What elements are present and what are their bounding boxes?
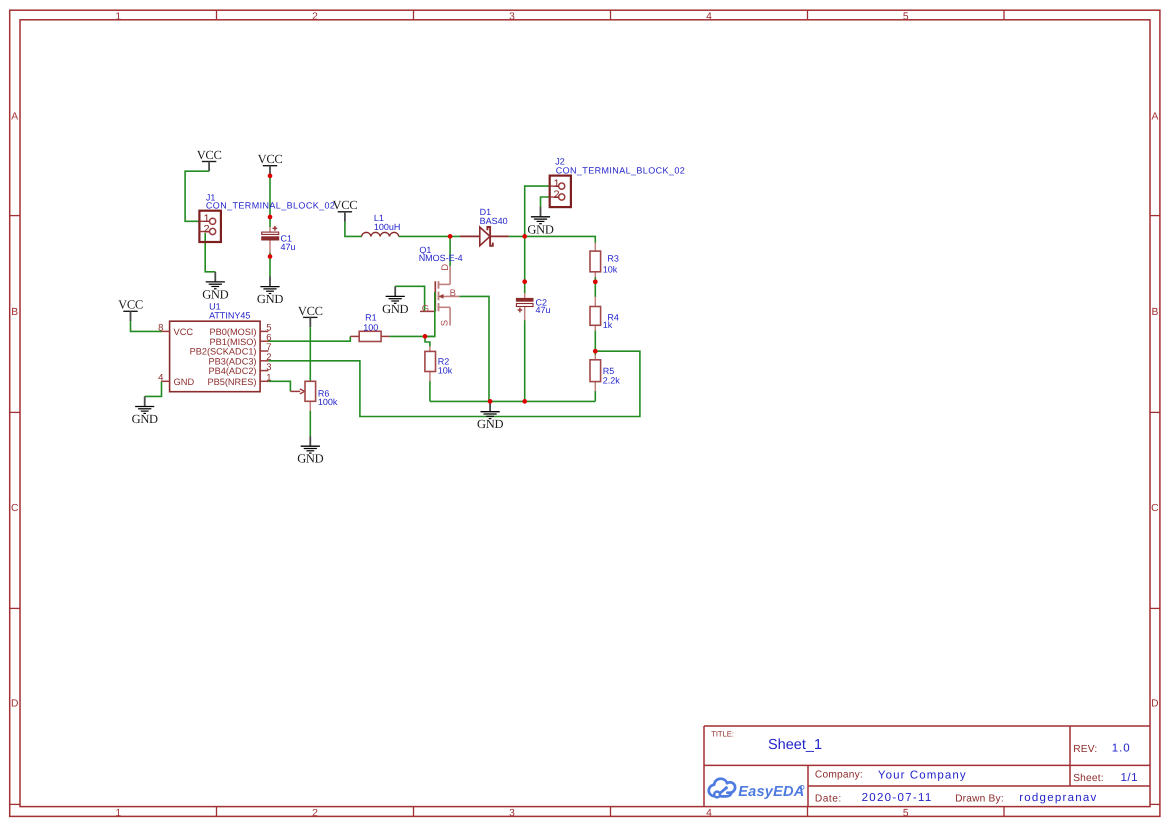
svg-text:D: D — [1151, 699, 1158, 710]
svg-text:B: B — [11, 307, 18, 318]
svg-text:2.2k: 2.2k — [603, 376, 621, 386]
J2 pin 2 — [550, 189, 565, 201]
svg-text:VCC: VCC — [118, 298, 143, 312]
svg-text:A: A — [1151, 111, 1158, 122]
EasyEDA logo registered mark — [800, 785, 804, 789]
resistor R2 body — [425, 351, 436, 371]
svg-text:GND: GND — [174, 377, 195, 387]
svg-text:1: 1 — [115, 808, 121, 819]
U1 pin 7 PB2(SCKADC1) — [190, 342, 272, 356]
wire R6 bottom to GND — [309, 411, 311, 436]
svg-text:1.0: 1.0 — [1112, 743, 1131, 755]
ground symbol GND (main rail) — [477, 402, 503, 432]
wire VCC4 to U1 pin8 — [131, 321, 162, 331]
svg-text:VCC: VCC — [332, 198, 357, 212]
power flag VCC (V3) — [332, 198, 357, 221]
svg-text:100k: 100k — [318, 397, 338, 407]
wire R2 bottom to GND rail — [429, 381, 431, 402]
power flag VCC (V4) — [118, 298, 143, 321]
U1 pin 4 GND — [158, 373, 194, 387]
U1 pin 3 PB4(ADC2) — [209, 362, 272, 376]
junction rail C2 — [522, 399, 527, 404]
svg-text:4: 4 — [706, 12, 712, 23]
svg-text:GND: GND — [132, 412, 158, 426]
svg-text:2020-07-11: 2020-07-11 — [862, 792, 933, 804]
ground symbol GND (under C1) — [257, 277, 283, 307]
svg-text:S: S — [440, 320, 451, 326]
svg-text:PB5(NRES): PB5(NRES) — [207, 377, 256, 387]
resistor R6 body — [305, 381, 316, 401]
U1 pin 2 PB3(ADC3) — [209, 352, 272, 366]
wire J1 pin2 to GND — [205, 233, 215, 272]
svg-text:10k: 10k — [603, 265, 618, 275]
svg-text:GND: GND — [257, 292, 283, 306]
svg-text:VCC: VCC — [298, 304, 323, 318]
wire R4 to R5 — [594, 331, 596, 356]
svg-text:Your Company: Your Company — [878, 770, 967, 782]
svg-text:EasyEDA: EasyEDA — [738, 784, 804, 800]
svg-text:2: 2 — [553, 189, 559, 201]
wire diode cathode to output node — [509, 236, 595, 242]
wire J2 pin2 to GND — [541, 197, 550, 207]
J1 pin 1 — [199, 213, 215, 225]
wire U1 pin6 to R1 — [268, 336, 350, 341]
junction C1 top — [268, 215, 273, 220]
svg-text:GND: GND — [382, 302, 408, 316]
wire R1 to gate node — [389, 335, 435, 337]
svg-text:Company:: Company: — [815, 770, 863, 781]
wire R3 to R4 — [594, 277, 596, 297]
ruler row letters left — [11, 111, 19, 709]
svg-text:VCC: VCC — [174, 327, 194, 337]
svg-text:2: 2 — [312, 808, 318, 819]
wire L1 to node D — [399, 235, 461, 237]
wire VCC5 to R6 top — [309, 327, 311, 381]
svg-text:5: 5 — [903, 808, 909, 819]
svg-text:R5: R5 — [603, 366, 615, 376]
junction C1 bottom — [268, 254, 273, 259]
diode D1 (BAS40 schottky) — [460, 227, 509, 246]
svg-text:47u: 47u — [536, 305, 551, 315]
U1 pin 5 PB0(MOSI) — [210, 323, 272, 337]
capacitor C1 — [262, 226, 279, 253]
U1 pin 6 PB1(MISO) — [210, 332, 272, 346]
svg-text:GND: GND — [527, 222, 553, 236]
wire GND rail — [430, 400, 595, 402]
junction VCC2 flag — [268, 174, 273, 179]
svg-text:2: 2 — [312, 12, 318, 23]
svg-text:3: 3 — [509, 12, 515, 23]
svg-text:PB4(ADC2): PB4(ADC2) — [209, 366, 257, 376]
wire feedback node to PB3 wire — [268, 351, 640, 416]
wire output node up to J2 pin1 — [525, 186, 550, 236]
U1 pin 1 PB5(NRES) — [207, 373, 271, 387]
svg-text:Sheet_1: Sheet_1 — [768, 737, 822, 753]
svg-text:3: 3 — [266, 362, 271, 373]
ruler column numbers top — [115, 12, 909, 23]
svg-text:1/1: 1/1 — [1121, 772, 1139, 784]
junction C2 upper — [522, 279, 527, 284]
svg-text:2: 2 — [203, 224, 209, 236]
svg-text:VCC: VCC — [258, 152, 283, 166]
wire VCC1 to J1 pin1 — [185, 171, 209, 221]
svg-text:PB0(MOSI): PB0(MOSI) — [210, 327, 257, 337]
svg-text:Sheet:: Sheet: — [1073, 773, 1104, 784]
ground symbol GND (under J1) — [202, 272, 228, 302]
svg-text:G: G — [422, 304, 429, 315]
wire C2 bottom to GND rail — [524, 320, 526, 401]
ground symbol GND (under J2) — [527, 207, 553, 237]
wire C2 branch upper — [524, 236, 526, 293]
wire GND to gate pin — [395, 286, 424, 311]
wire U1 pin4 to GND — [145, 381, 162, 396]
U1 pin 8 VCC — [158, 323, 193, 337]
resistor R2 body — [429, 346, 431, 381]
resistor R3 body — [590, 251, 601, 272]
inductor L1 — [362, 232, 399, 236]
IC U1 ATTINY45 body — [170, 321, 261, 392]
svg-text:Drawn By:: Drawn By: — [955, 793, 1004, 804]
title block table — [704, 726, 1150, 807]
svg-text:3: 3 — [509, 808, 515, 819]
power flag VCC (V1) — [197, 148, 222, 171]
wire gate down to R1 node — [425, 292, 435, 336]
ground symbol GND (near Q1 gate) — [382, 286, 408, 316]
wire node D down to Q1 drain — [449, 236, 451, 266]
wire C1 to GND — [269, 253, 271, 277]
resistor R5 body — [590, 360, 601, 382]
svg-text:TITLE:: TITLE: — [711, 729, 734, 738]
J1 pin 2 — [199, 224, 215, 236]
svg-text:D: D — [440, 264, 451, 271]
svg-text:4: 4 — [706, 808, 712, 819]
transistor Q1 NMOS — [420, 266, 460, 325]
svg-text:GND: GND — [477, 417, 503, 431]
svg-text:1k: 1k — [603, 320, 613, 330]
svg-text:CON_TERMINAL_BLOCK_02: CON_TERMINAL_BLOCK_02 — [206, 200, 335, 210]
svg-text:R1: R1 — [365, 313, 377, 323]
junction rail GND — [488, 399, 493, 404]
svg-text:C: C — [1151, 503, 1159, 514]
svg-text:4: 4 — [158, 373, 163, 384]
wire R1 node to R2 top — [425, 336, 430, 346]
capacitor C2 — [516, 293, 533, 320]
svg-text:rodgepranav: rodgepranav — [1019, 792, 1097, 804]
ground symbol GND (under R6) — [297, 436, 323, 466]
svg-text:Date:: Date: — [815, 793, 842, 804]
svg-text:C: C — [11, 503, 19, 514]
junction R3-R4 — [593, 279, 598, 284]
svg-text:NMOS-E-4: NMOS-E-4 — [419, 253, 463, 263]
svg-text:B: B — [1151, 307, 1158, 318]
svg-text:1: 1 — [115, 12, 121, 23]
svg-text:10k: 10k — [438, 366, 453, 376]
connector J1 body — [199, 211, 221, 242]
wire Q1 body to lower rail — [460, 296, 490, 401]
resistor R5 pins — [594, 355, 596, 392]
svg-text:PB3(ADC3): PB3(ADC3) — [209, 356, 257, 366]
junction R4-R5 feedback — [593, 349, 598, 354]
resistor R6 body with wiper arrow — [290, 389, 310, 411]
svg-text:GND: GND — [202, 287, 228, 301]
power flag VCC (V5) — [298, 304, 323, 327]
resistor R3 pins — [594, 243, 596, 278]
svg-text:VCC: VCC — [197, 148, 222, 162]
svg-text:PB1(MISO): PB1(MISO) — [210, 337, 257, 347]
svg-text:8: 8 — [158, 323, 163, 334]
junction node D — [448, 234, 453, 239]
junction output node — [522, 234, 527, 239]
power flag VCC (V2) — [258, 152, 283, 175]
resistor R1 body — [350, 331, 389, 341]
svg-text:47u: 47u — [281, 242, 296, 252]
resistor R4 body — [590, 307, 601, 326]
wire VCC2 down to C1 — [269, 175, 271, 228]
svg-text:1: 1 — [266, 373, 271, 384]
svg-text:D: D — [11, 699, 18, 710]
wire U1 pin1 to R6 wiper — [268, 381, 290, 391]
J2 pin 1 — [550, 178, 565, 190]
ruler row letters right — [1151, 111, 1159, 709]
resistor R4 pins — [594, 297, 596, 331]
svg-text:REV:: REV: — [1073, 744, 1097, 755]
svg-text:ATTINY45: ATTINY45 — [209, 311, 250, 321]
wire VCC3 to L1 — [345, 222, 362, 237]
wire R5 bottom to GND rail — [594, 391, 596, 402]
ruler column numbers bottom — [115, 808, 909, 819]
svg-text:A: A — [11, 111, 18, 122]
svg-text:100uH: 100uH — [374, 222, 401, 232]
svg-text:GND: GND — [297, 452, 323, 466]
svg-text:100: 100 — [363, 323, 378, 333]
EasyEDA logo cloud icon — [709, 779, 735, 797]
ground symbol GND (U1 pin4) — [132, 396, 158, 426]
svg-text:B: B — [450, 288, 456, 299]
svg-text:BAS40: BAS40 — [480, 216, 508, 226]
svg-text:R3: R3 — [607, 254, 619, 264]
junction gate/R1/R2 — [423, 334, 428, 339]
svg-text:PB2(SCKADC1): PB2(SCKADC1) — [190, 347, 257, 357]
svg-text:5: 5 — [903, 12, 909, 23]
connector J2 body — [550, 176, 571, 208]
svg-text:CON_TERMINAL_BLOCK_02: CON_TERMINAL_BLOCK_02 — [556, 165, 685, 175]
